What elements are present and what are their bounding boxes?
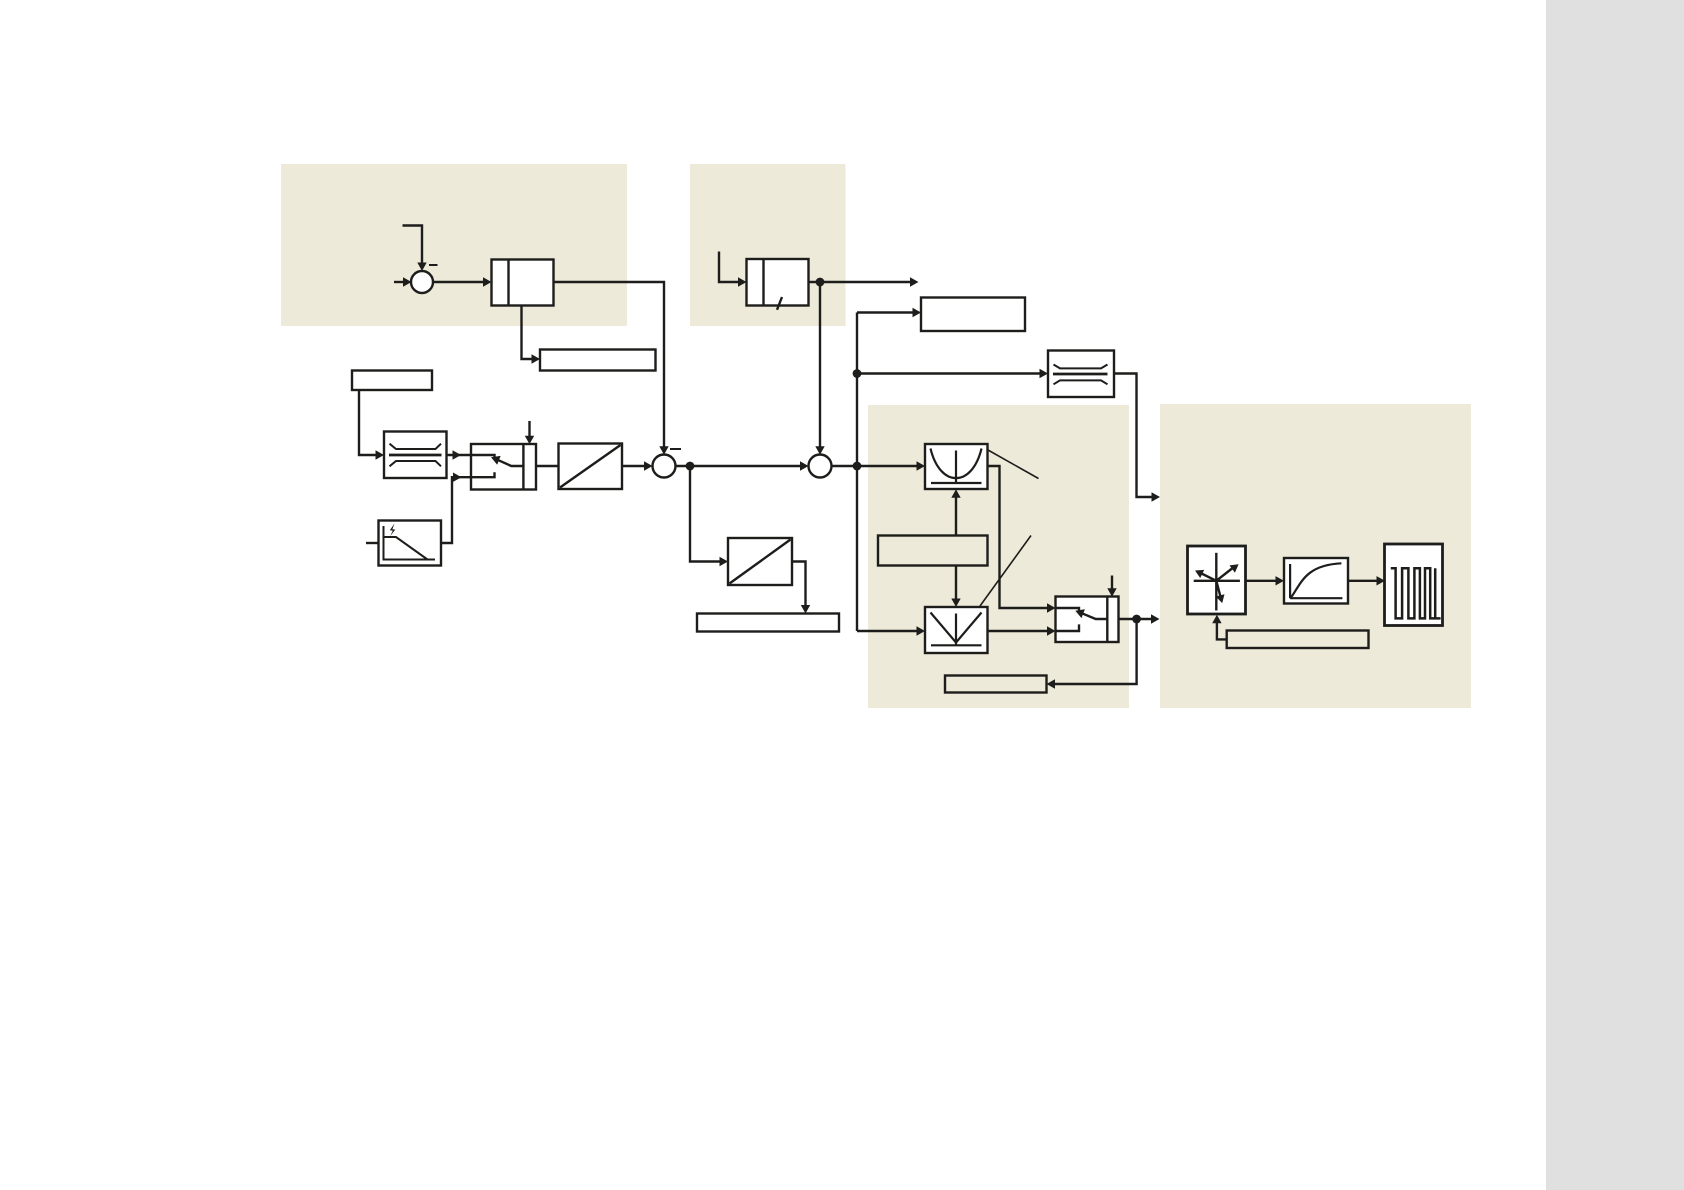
limiter block B8 — [1048, 351, 1114, 398]
wire S2 to S3 with junction — [676, 461, 809, 470]
parameter rectangle R1 — [540, 350, 656, 371]
wire B11 output with junction into modulator panel — [1119, 614, 1160, 623]
normalization block B4 — [559, 444, 623, 490]
parameter rectangle R2 — [352, 371, 432, 391]
shaded panel modulator area — [1160, 404, 1471, 708]
arrow R5 down to B10 — [951, 566, 960, 608]
wire S1 to PI block — [433, 277, 492, 286]
switch block B3 — [471, 444, 536, 490]
shaded panel characteristic area — [868, 405, 1129, 708]
wire R2 to smoothing block B2 — [359, 390, 384, 460]
parameter rectangle R5 — [878, 536, 988, 566]
PI controller block B1 — [492, 260, 554, 306]
shaded panel speed setpoint area — [281, 164, 627, 326]
wire B4 to S2 — [622, 461, 653, 470]
parabola block B9 — [925, 444, 988, 489]
wire junction down to divider B5 — [690, 466, 728, 566]
wire bus to rectangle R4 — [857, 308, 921, 317]
wire B5 to rectangle R3 — [792, 562, 810, 614]
characteristic block B6 with flash — [379, 521, 442, 566]
gray sidebar — [1546, 0, 1684, 1190]
shaded panel ramp generator area — [690, 164, 846, 326]
wire top input into S1 — [403, 226, 427, 272]
wire R7 to vector block B12 — [1212, 615, 1227, 640]
summing junction S2 — [653, 455, 676, 478]
vector rotator block B12 — [1188, 546, 1246, 614]
smoothing block B2 — [384, 432, 447, 479]
wire B8 output into modulator panel — [1114, 374, 1160, 502]
wire into summing junction S1 — [394, 277, 412, 286]
wire S3 to parabola block with junction — [832, 461, 926, 470]
summing junction S3 — [809, 455, 832, 478]
parameter rectangle R7 — [1227, 631, 1369, 649]
vertical bus wire at x857 — [853, 313, 862, 632]
select arrow into B11 top — [1107, 576, 1116, 597]
wire input into ramp block B7 — [719, 252, 747, 287]
wire B1 bottom to rectangle R1 — [522, 306, 541, 364]
wire B12 to curve block B13 — [1246, 576, 1285, 585]
stub wire into B6 — [366, 542, 379, 544]
saturation curve block B13 — [1284, 558, 1348, 604]
minus sign at S2 — [670, 448, 681, 450]
wire B13 to pulse block B14 — [1348, 576, 1385, 585]
wire B10 output to switch B11 lower input — [988, 626, 1056, 635]
parameter rectangle R3 — [697, 614, 839, 632]
select arrow into B3 top — [525, 421, 534, 444]
leader line 2 — [980, 536, 1031, 607]
arrow R5 up to B9 — [951, 489, 960, 535]
parameter rectangle R4 — [921, 298, 1025, 332]
wire B2 to switch B3 — [447, 450, 472, 459]
leader line 1 — [988, 450, 1039, 479]
wire B1 output down to S2 — [554, 282, 669, 455]
wire bus to limiter B8 — [857, 369, 1048, 378]
ramp-function block B7 — [747, 259, 809, 310]
wire B6 to B3 lower input — [441, 473, 471, 544]
summing junction S1 — [411, 271, 433, 293]
pulse pattern block B14 — [1385, 544, 1443, 626]
wire B7 output with junction — [809, 277, 919, 286]
minus sign at S1 — [429, 264, 438, 266]
divider block B5 — [728, 538, 792, 585]
feedback wire to rectangle R6 — [1047, 619, 1137, 689]
wire junction down to S3 — [815, 282, 824, 455]
wire B9 output to switch B11 upper input — [988, 466, 1056, 613]
switch block B11 — [1056, 597, 1119, 643]
V-characteristic block B10 — [925, 607, 988, 653]
wire B3 to normalization B4 — [536, 465, 559, 467]
parameter rectangle R6 — [945, 676, 1047, 693]
wire bus to Vbox B10 — [857, 626, 925, 635]
